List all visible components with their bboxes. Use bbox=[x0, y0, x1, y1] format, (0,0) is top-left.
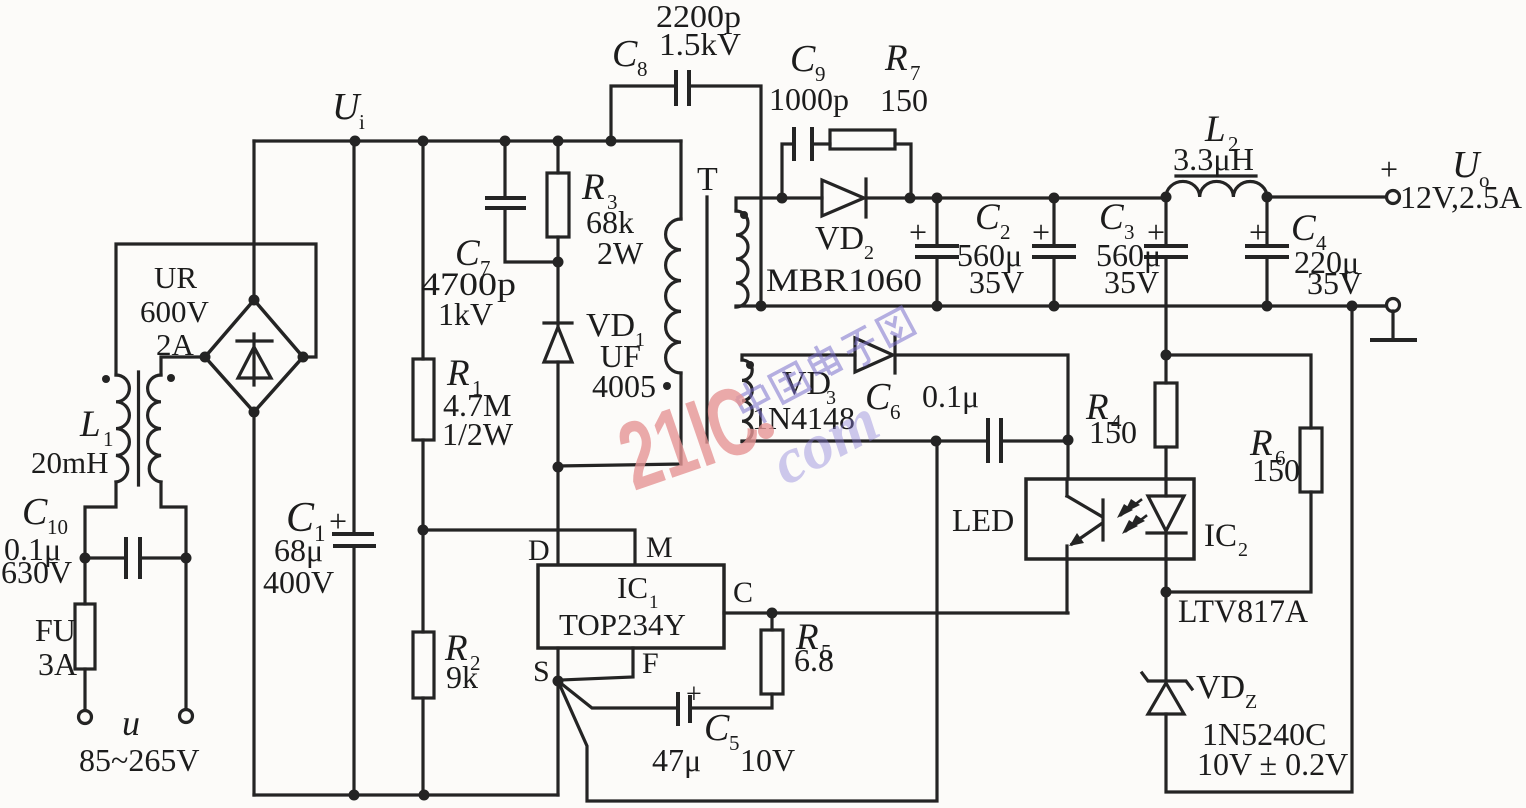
node C3 top junction bbox=[1049, 193, 1060, 204]
node C8 bottom junction bbox=[756, 301, 767, 312]
svg-text:150: 150 bbox=[880, 82, 928, 118]
capacitor C4 top lead bbox=[1265, 197, 1268, 244]
svg-text:6: 6 bbox=[890, 400, 901, 424]
svg-text:150: 150 bbox=[1252, 452, 1300, 488]
wire primary bottom to drain node bbox=[558, 373, 681, 466]
svg-text:35V: 35V bbox=[969, 264, 1024, 300]
wire bias bottom rail bbox=[742, 439, 986, 442]
svg-text:C: C bbox=[612, 33, 638, 75]
node zener return junction bbox=[1347, 301, 1358, 312]
svg-text:VD: VD bbox=[815, 220, 864, 257]
node snubber left junction bbox=[777, 193, 788, 204]
svg-text:150: 150 bbox=[1089, 414, 1137, 450]
wire L1 left bottom to C10 left node bbox=[85, 482, 116, 558]
svg-text:1000p: 1000p bbox=[769, 81, 849, 117]
capacitor C3 plates bbox=[1034, 246, 1074, 257]
svg-text:68μ: 68μ bbox=[274, 532, 323, 568]
transformer T primary winding bbox=[666, 219, 681, 373]
capacitor C7 plates bbox=[487, 198, 524, 208]
svg-text:D: D bbox=[528, 534, 550, 567]
wire IC1 C pin to optocoupler LED anode side bbox=[724, 611, 1068, 614]
svg-text:600V: 600V bbox=[140, 294, 210, 329]
node C1 bottom junction bbox=[349, 790, 360, 801]
node R3 top junction bbox=[553, 136, 564, 147]
node bridge right bbox=[298, 352, 309, 363]
optocoupler LED bbox=[1067, 479, 1103, 559]
wire secondary bottom rail bbox=[736, 306, 1387, 307]
watermark blue chinese characters (vector approximation) bbox=[732, 301, 919, 429]
svg-text:M: M bbox=[646, 531, 673, 564]
svg-text:10V ± 0.2V: 10V ± 0.2V bbox=[1197, 746, 1348, 782]
wire C9 to R7 bbox=[814, 142, 830, 145]
wire R4 bottom to optocoupler bbox=[1164, 447, 1167, 479]
node L2 left junction bbox=[1161, 192, 1172, 203]
svg-text:S: S bbox=[533, 655, 550, 688]
watermark red dot bbox=[758, 423, 774, 439]
wire zener anode down and around to 0V rail bbox=[1166, 306, 1352, 792]
svg-text:LTV817A: LTV817A bbox=[1178, 594, 1308, 630]
capacitor C2 top lead bbox=[935, 198, 938, 244]
capacitor C3 bottom lead bbox=[1052, 259, 1055, 306]
svg-text:FU: FU bbox=[35, 612, 76, 648]
inductor L1 right winding bbox=[148, 375, 161, 482]
fuse FU 3A bbox=[75, 604, 95, 669]
filter capacitor bottom lead crossing 0V rail to R4 node bbox=[1164, 259, 1167, 355]
wire R3 bottom to node bbox=[556, 237, 559, 262]
polarity dot bias winding bbox=[746, 361, 754, 369]
zener diode VDZ bbox=[1142, 673, 1192, 714]
svg-text:Z: Z bbox=[1245, 691, 1257, 713]
node C4 bottom junction bbox=[1262, 301, 1273, 312]
capacitor C6 plates bbox=[988, 420, 1001, 461]
filter capacitor at L2 input plates bbox=[1146, 246, 1186, 257]
diode VD2 MBR1060 bbox=[822, 179, 866, 217]
resistor R7 bbox=[830, 130, 895, 149]
svg-text:C: C bbox=[1291, 208, 1317, 249]
ground symbol bbox=[1372, 311, 1415, 340]
svg-text:12V,2.5A: 12V,2.5A bbox=[1400, 179, 1522, 215]
node M divider junction bbox=[418, 525, 429, 536]
resistor R4 bbox=[1155, 383, 1177, 447]
node drain junction bbox=[553, 462, 564, 473]
wire LTV node down to zener bbox=[1164, 592, 1167, 681]
svg-text:C: C bbox=[790, 38, 816, 80]
transformer T primary top lead bbox=[679, 141, 682, 219]
svg-text:C: C bbox=[22, 491, 48, 533]
node bridge bottom bbox=[249, 407, 260, 418]
svg-text:IC: IC bbox=[617, 570, 648, 605]
L2 label underline bbox=[1176, 174, 1256, 177]
resistor R3 lead top bbox=[556, 141, 559, 173]
wire L1 right bottom to C10 right node bbox=[161, 482, 186, 558]
resistor R5 bbox=[761, 630, 783, 694]
svg-text:20mH: 20mH bbox=[31, 445, 109, 480]
svg-text:630V: 630V bbox=[1, 554, 72, 590]
svg-text:+: + bbox=[1380, 151, 1398, 187]
wire bridge left node to L1 right winding bbox=[161, 357, 205, 375]
svg-text:2: 2 bbox=[1238, 539, 1248, 561]
svg-text:u: u bbox=[122, 703, 140, 743]
node R3-C7-VD1 junction bbox=[553, 257, 564, 268]
capacitor C4 bottom lead bbox=[1265, 259, 1268, 306]
resistor R3 bbox=[547, 173, 569, 237]
inductor L2 bbox=[1166, 181, 1267, 197]
wire C6 right lead to LED node bbox=[1003, 439, 1068, 442]
capacitor C10 plates bbox=[126, 539, 140, 577]
transformer T bias winding bbox=[742, 360, 752, 442]
resistor R6 bbox=[1300, 428, 1322, 492]
svg-text:10V: 10V bbox=[740, 742, 795, 778]
output terminal plus bbox=[1387, 191, 1400, 204]
capacitor C7 lead top bbox=[503, 141, 506, 196]
wire S node down to primary ground bus bbox=[556, 681, 559, 795]
svg-text:8: 8 bbox=[637, 57, 648, 81]
wire C10 right node to input terminal bbox=[184, 558, 187, 710]
svg-text:+: + bbox=[1249, 214, 1267, 250]
svg-text:R: R bbox=[884, 38, 908, 79]
svg-text:MBR1060: MBR1060 bbox=[766, 263, 922, 299]
svg-text:2: 2 bbox=[864, 242, 874, 264]
svg-text:35V: 35V bbox=[1307, 265, 1362, 301]
snubber left wire C9 bbox=[782, 144, 792, 198]
capacitor C3 top lead bbox=[1052, 198, 1055, 244]
polarity dot L1 left bbox=[102, 375, 110, 383]
svg-text:1/2W: 1/2W bbox=[442, 416, 514, 452]
node C7 top junction bbox=[500, 136, 511, 147]
wire M node to IC1 M pin bbox=[423, 530, 635, 565]
node L2 right junction bbox=[1262, 192, 1273, 203]
node C2 bottom junction bbox=[932, 301, 943, 312]
IC1 TOP234Y box bbox=[538, 565, 724, 648]
diode VD1 lead from node bbox=[556, 262, 559, 327]
optocoupler IC2 box bbox=[1026, 479, 1194, 559]
wire S node diagonal to C5 bbox=[558, 681, 676, 708]
diode VD3 1N4148 bbox=[855, 337, 895, 373]
polarity dot L1 right bbox=[167, 374, 175, 382]
node bias return junction bbox=[931, 436, 942, 447]
transformer T core line bbox=[705, 197, 708, 442]
node Ui-C1 junction bbox=[350, 136, 361, 147]
transformer T secondary winding bbox=[736, 211, 748, 307]
input terminal left bbox=[79, 711, 92, 724]
node C8 branch junction bbox=[606, 136, 617, 147]
svg-text:VD: VD bbox=[1196, 669, 1245, 706]
wire S node diagonal to bias return bus bbox=[558, 441, 937, 801]
svg-text:2W: 2W bbox=[597, 235, 644, 271]
wire 0V rail to ground terminal bbox=[1352, 304, 1387, 307]
capacitor C2 bottom lead bbox=[935, 259, 938, 306]
node C10 right junction bbox=[181, 553, 192, 564]
svg-text:+: + bbox=[1147, 214, 1165, 250]
node S junction bbox=[553, 676, 564, 687]
svg-text:C: C bbox=[704, 707, 730, 749]
node C2 top junction bbox=[932, 193, 943, 204]
wire R2 bottom to ground bus bbox=[421, 698, 424, 795]
resistor R1 lead top bbox=[421, 141, 424, 359]
wire VD3 cathode over to LED anode node bbox=[897, 355, 1068, 479]
node R4 top junction bbox=[1161, 350, 1172, 361]
wire VD1 anode to drain node bbox=[556, 362, 559, 467]
wire bias top to VD3 anode bbox=[742, 355, 855, 360]
svg-text:3A: 3A bbox=[38, 646, 77, 682]
capacitor C8 right wire down to secondary bottom rail bbox=[691, 86, 761, 306]
svg-text:i: i bbox=[359, 110, 365, 134]
svg-text:47μ: 47μ bbox=[652, 742, 701, 778]
capacitor C4 plates bbox=[1247, 246, 1287, 257]
node C3 bottom junction bbox=[1049, 301, 1060, 312]
svg-text:U: U bbox=[332, 86, 362, 128]
optocoupler light arrows bbox=[1117, 499, 1146, 534]
capacitor C9 plates bbox=[794, 129, 812, 159]
wire fuse to input terminal bbox=[83, 669, 86, 711]
resistor R1 bbox=[413, 359, 434, 440]
svg-text:C: C bbox=[733, 576, 753, 609]
svg-text:UR: UR bbox=[154, 260, 197, 295]
wire C10 right lead bbox=[142, 556, 186, 559]
wire bridge minus down to bottom bus bbox=[252, 412, 255, 795]
wire R7 right down to rail bbox=[895, 144, 911, 198]
polarity dot primary bbox=[663, 382, 671, 390]
resistor R5 top lead bbox=[770, 613, 773, 630]
node bridge top bbox=[249, 295, 260, 306]
svg-text:1kV: 1kV bbox=[438, 296, 493, 332]
svg-text:TOP234Y: TOP234Y bbox=[559, 607, 686, 642]
wire C10 to fuse bbox=[83, 558, 86, 604]
node LTV junction bbox=[1161, 587, 1172, 598]
node C10 left junction bbox=[80, 553, 91, 564]
bridge rectifier UR diamond bbox=[205, 300, 303, 412]
wire R6 bottom to LTV node bbox=[1166, 492, 1311, 592]
wire C7 bottom to R3 bottom node bbox=[505, 210, 558, 262]
svg-text:LED: LED bbox=[952, 502, 1014, 538]
svg-text:5: 5 bbox=[729, 731, 740, 755]
wire photodiode out to LTV node bbox=[1164, 559, 1167, 592]
svg-text:2A: 2A bbox=[156, 327, 195, 362]
node R1 top junction bbox=[418, 136, 429, 147]
wire drain node to IC1 D pin bbox=[556, 467, 559, 565]
svg-text:R: R bbox=[581, 167, 605, 208]
svg-text:+: + bbox=[686, 679, 702, 710]
node snubber right junction bbox=[905, 193, 916, 204]
bridge inner diode bbox=[237, 334, 272, 385]
wire C5 right to R5 bottom bbox=[692, 694, 772, 708]
wire UR loop right node over top to L1 left winding bbox=[116, 244, 316, 375]
svg-text:35V: 35V bbox=[1104, 264, 1159, 300]
wire VD2 cathode along +12V rail to L2 bbox=[866, 196, 1166, 199]
resistor R2 bbox=[413, 632, 434, 698]
svg-text:3.3μH: 3.3μH bbox=[1173, 141, 1254, 177]
svg-text:9k: 9k bbox=[446, 659, 478, 695]
wire LED cathode down to C pin wire bbox=[1065, 559, 1068, 613]
capacitor C5 plates bbox=[678, 694, 690, 724]
svg-text:C: C bbox=[975, 197, 1001, 238]
node C pin R5 junction bbox=[767, 608, 778, 619]
wire C10 left lead bbox=[85, 556, 124, 559]
svg-text:0.1μ: 0.1μ bbox=[922, 378, 979, 414]
resistor R4 top lead from node bbox=[1164, 355, 1167, 383]
node LED anode junction bbox=[1063, 435, 1074, 446]
wire bridge plus to Ui bus bbox=[252, 141, 255, 300]
wire secondary top to VD2 anode bbox=[736, 198, 822, 211]
node bridge left bbox=[200, 352, 211, 363]
polarity dot secondary bbox=[740, 211, 748, 219]
wire IC1 F pin to S node bbox=[561, 648, 633, 680]
inductor L1 left winding bbox=[116, 375, 129, 482]
node R2 bottom junction bbox=[419, 790, 430, 801]
svg-text:+: + bbox=[1032, 214, 1050, 250]
svg-text:C: C bbox=[1099, 197, 1125, 238]
input terminal right bbox=[180, 710, 193, 723]
capacitor C1 leads bbox=[352, 141, 355, 795]
diode VD1 bbox=[544, 323, 572, 362]
wire Ui bus top bbox=[254, 139, 681, 142]
svg-text:T: T bbox=[697, 161, 718, 198]
wire R1 bottom to M node bbox=[421, 440, 424, 530]
output terminal ground bbox=[1387, 299, 1400, 312]
L1 core line bbox=[137, 372, 140, 485]
capacitor C8 left wire from bus bbox=[611, 86, 674, 141]
svg-text:IC: IC bbox=[1204, 518, 1237, 554]
capacitor C1 plates bbox=[334, 534, 374, 546]
wire R4 node over to R6 top bbox=[1166, 355, 1311, 428]
svg-text:85~265V: 85~265V bbox=[79, 742, 199, 778]
svg-text:1.5kV: 1.5kV bbox=[659, 26, 741, 62]
svg-text:400V: 400V bbox=[263, 564, 334, 600]
svg-text:L: L bbox=[79, 404, 101, 445]
filter capacitor at L2 input top lead bbox=[1164, 198, 1167, 244]
svg-text:6.8: 6.8 bbox=[794, 642, 834, 678]
capacitor C8 plates bbox=[676, 72, 689, 104]
svg-text:F: F bbox=[642, 647, 659, 680]
wire bottom primary ground bus bbox=[254, 793, 558, 796]
svg-text:+: + bbox=[909, 214, 927, 250]
capacitor C2 plates bbox=[917, 246, 957, 257]
wire L2 to output terminal bbox=[1267, 195, 1386, 198]
optocoupler photodiode bbox=[1147, 479, 1186, 559]
svg-text:+: + bbox=[329, 503, 347, 539]
resistor R2 lead top bbox=[421, 530, 424, 632]
wire IC1 S pin to S node bbox=[556, 648, 559, 681]
